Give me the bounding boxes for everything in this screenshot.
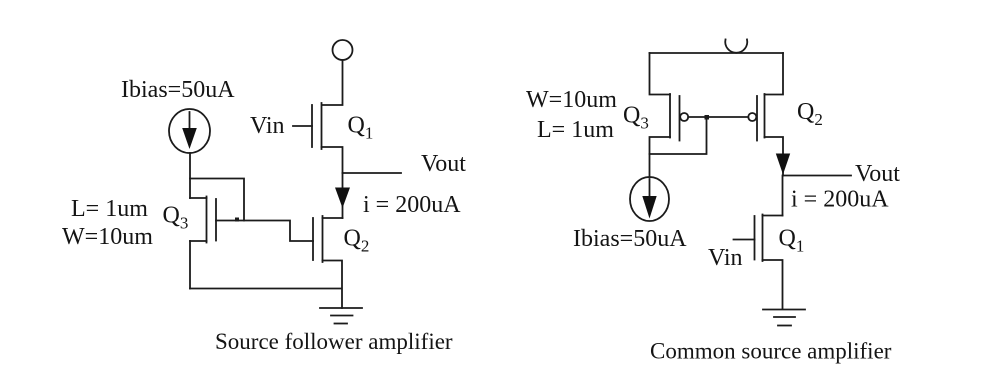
current arrow i (right) <box>776 154 790 175</box>
wire Q1 source to Vout node <box>322 147 343 173</box>
svg-text:L= 1um: L= 1um <box>537 117 614 143</box>
transistor Q3 (mirrored) <box>190 197 216 243</box>
svg-text:W=10um: W=10um <box>62 224 153 250</box>
wire Q2 source down to ground <box>323 261 343 309</box>
bottom wire to ground <box>190 288 342 290</box>
bubble Q2 gate <box>748 113 756 121</box>
wire Ibias to Q3 drain <box>189 153 191 198</box>
wire Q1 source to ground <box>763 260 783 309</box>
transistor Q2 <box>313 216 343 262</box>
svg-text:Q2: Q2 <box>797 99 823 129</box>
svg-text:Q1: Q1 <box>779 225 805 255</box>
svg-text:Q3: Q3 <box>623 103 649 133</box>
svg-text:Source follower amplifier: Source follower amplifier <box>215 329 453 354</box>
wire Q3 source down <box>189 241 191 289</box>
VDD terminal circle (left) <box>333 40 353 60</box>
junction dot on gate wire <box>235 218 239 222</box>
ground (right) <box>763 310 805 326</box>
svg-text:Ibias=50uA: Ibias=50uA <box>573 226 687 252</box>
svg-text:i = 200uA: i = 200uA <box>791 187 889 213</box>
svg-text:L= 1um: L= 1um <box>71 196 148 222</box>
wire Vout down to Q1 drain <box>782 176 784 216</box>
diode-connection wire <box>650 117 707 154</box>
svg-text:i = 200uA: i = 200uA <box>363 192 461 218</box>
wire rail down to Q3 source <box>650 53 671 95</box>
VDD arc terminal (right) <box>725 40 747 53</box>
transistor Q1 <box>293 103 322 149</box>
svg-text:Q3: Q3 <box>163 202 189 232</box>
Vout wire (right) <box>783 175 851 177</box>
wire Vout node down to Q2 drain <box>342 173 344 218</box>
current arrow i (left) <box>335 188 350 209</box>
junction dot <box>705 115 710 120</box>
transistor Q2 (PMOS) <box>757 53 783 176</box>
wire Q3 drain down <box>650 137 671 177</box>
gate wire Q3 to Q2 <box>688 116 748 118</box>
svg-text:Vout: Vout <box>421 151 466 177</box>
transistor Q3 (PMOS, mirrored) <box>670 94 680 141</box>
diode-connection wire Q3 drain to gate <box>190 179 244 221</box>
svg-text:Common source amplifier: Common source amplifier <box>650 339 892 364</box>
transistor Q1 (right) <box>734 215 783 262</box>
svg-text:Q2: Q2 <box>344 226 370 256</box>
current source Ibias (left) <box>169 109 210 153</box>
top rail wire <box>650 52 784 54</box>
wire Vout node (horizontal) <box>343 172 402 174</box>
ground (left) <box>320 308 362 324</box>
svg-text:Vin: Vin <box>250 113 285 139</box>
svg-text:Vin: Vin <box>708 245 743 271</box>
svg-text:W=10um: W=10um <box>526 87 617 113</box>
wire gate link Q3 to Q2 <box>216 221 313 242</box>
bubble Q3 gate <box>680 113 688 121</box>
svg-text:Vout: Vout <box>855 161 900 187</box>
svg-text:Q1: Q1 <box>348 113 374 143</box>
svg-text:Ibias=50uA: Ibias=50uA <box>121 77 235 103</box>
current source Ibias (right) <box>630 177 669 221</box>
wire VDD to Q1 drain <box>322 60 343 105</box>
